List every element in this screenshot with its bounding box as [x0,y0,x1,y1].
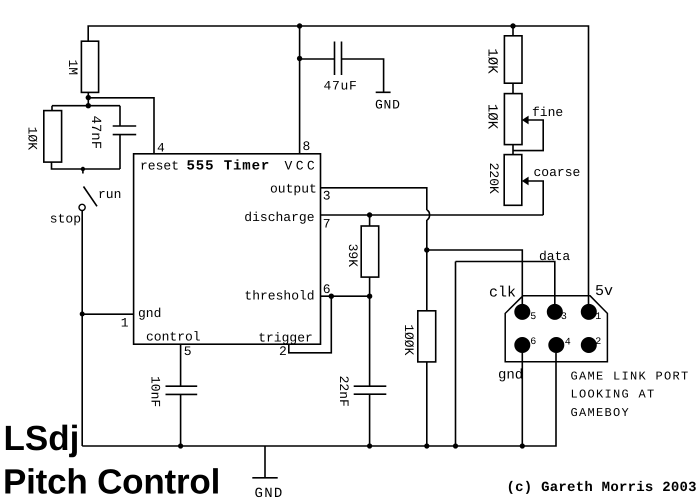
svg-text:GND: GND [255,486,284,500]
svg-text:coarse: coarse [534,165,581,180]
svg-text:Pitch Control: Pitch Control [3,462,220,500]
svg-text:discharge: discharge [244,210,314,225]
svg-text:4: 4 [157,141,165,156]
svg-text:VCC: VCC [285,158,319,173]
svg-text:4: 4 [565,337,571,348]
svg-text:threshold: threshold [244,289,314,304]
svg-text:22nF: 22nF [336,376,351,407]
svg-text:gnd: gnd [138,306,161,321]
svg-text:GAMEBOY: GAMEBOY [571,406,631,420]
svg-text:6: 6 [323,282,331,297]
svg-text:1ØØK: 1ØØK [401,324,416,355]
svg-text:1M: 1M [65,59,80,75]
svg-text:GAME LINK PORT: GAME LINK PORT [571,369,690,383]
svg-text:2: 2 [595,337,601,348]
svg-text:3: 3 [561,312,567,323]
svg-text:data: data [539,249,570,264]
svg-text:1ØK: 1ØK [25,127,40,151]
svg-text:(c) Gareth Morris 2003: (c) Gareth Morris 2003 [507,480,697,496]
svg-text:10nF: 10nF [147,376,162,407]
svg-text:1: 1 [121,316,129,331]
svg-text:3: 3 [323,189,331,204]
svg-text:47nF: 47nF [87,115,103,149]
svg-text:8: 8 [303,139,311,154]
svg-text:39K: 39K [345,244,360,268]
svg-text:output: output [270,182,317,197]
svg-text:stop: stop [50,212,81,227]
svg-text:clk: clk [489,284,516,301]
svg-text:5: 5 [184,344,192,359]
svg-text:1ØK: 1ØK [483,48,499,74]
svg-text:LOOKING AT: LOOKING AT [571,388,656,402]
svg-text:5v: 5v [595,283,613,300]
svg-text:47uF: 47uF [324,78,358,93]
svg-text:555 Timer: 555 Timer [187,158,271,174]
svg-text:6: 6 [530,337,536,348]
svg-text:GND: GND [375,97,401,112]
svg-text:run: run [98,187,121,202]
svg-text:1ØK: 1ØK [483,104,499,130]
svg-text:2: 2 [279,344,287,359]
svg-text:control: control [146,330,201,345]
svg-text:1: 1 [595,312,601,323]
svg-text:LSdj: LSdj [4,419,80,458]
svg-text:220K: 220K [486,163,501,194]
svg-text:reset: reset [140,158,179,173]
svg-text:fine: fine [532,105,563,120]
svg-text:7: 7 [323,217,331,232]
svg-text:gnd: gnd [498,368,523,384]
svg-text:5: 5 [530,312,536,323]
